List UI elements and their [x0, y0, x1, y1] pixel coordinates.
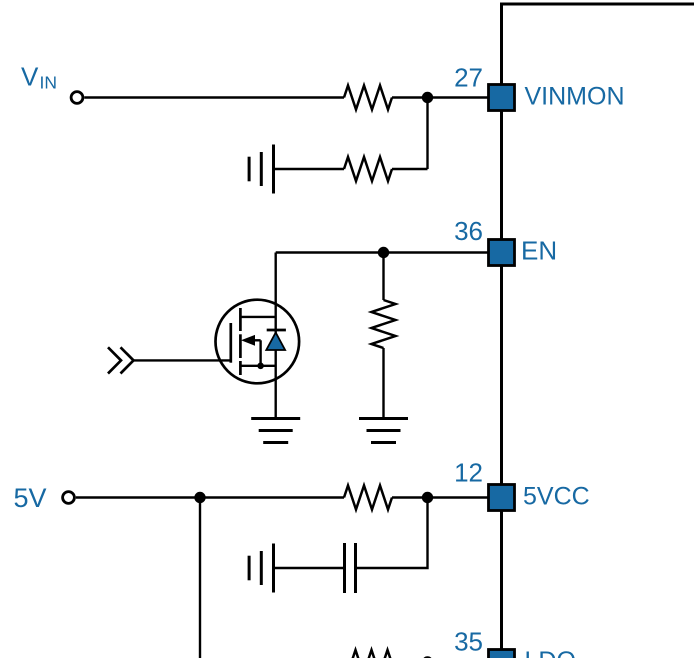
node junction bottom row	[422, 656, 433, 658]
node junction on 5V line (left)	[194, 492, 205, 503]
svg-text:EN: EN	[521, 236, 557, 266]
wire node down to lower resistor	[426, 98, 428, 170]
wire resistor to ground (row 2)	[274, 168, 345, 170]
wire node down to bottom	[199, 498, 201, 658]
wire VIN to resistor	[84, 96, 344, 98]
terminal 5V (open circle)	[63, 492, 75, 504]
ground (below EN pulldown)	[359, 419, 408, 443]
ground (row 2, rotated left)	[249, 145, 273, 194]
pin 27 square	[489, 85, 515, 111]
Q1 body circle	[215, 300, 299, 384]
svg-text:36: 36	[454, 216, 483, 246]
resistor (bottom row, partial)	[352, 650, 400, 658]
wire resistor to pin 5VCC	[392, 496, 489, 498]
svg-text:5V: 5V	[14, 483, 47, 513]
resistor (VIN line)	[344, 86, 392, 110]
capacitor (5VCC bypass)	[345, 543, 356, 593]
terminal VIN (open circle)	[71, 92, 83, 104]
Q1 gate bar	[229, 323, 232, 363]
svg-text:LDO: LDO	[525, 647, 576, 658]
svg-text:VINMON: VINMON	[525, 82, 625, 110]
svg-text:V: V	[21, 62, 39, 92]
svg-text:5VCC: 5VCC	[523, 482, 590, 510]
svg-text:IN: IN	[40, 73, 58, 93]
wire EN from drain corner to pin	[276, 251, 489, 253]
pin 35 square	[489, 650, 515, 658]
Q1 source lead	[240, 365, 275, 367]
wire gate	[134, 359, 231, 361]
body diode (blue)	[266, 333, 285, 351]
wire capacitor to ground	[274, 567, 345, 569]
wire lower resistor to corner	[392, 168, 428, 170]
wire 5V to resistor	[76, 496, 344, 498]
node junction on 5V line (right)	[422, 492, 433, 503]
ground (below Q1 source)	[251, 419, 300, 443]
body diode cathode bar	[267, 329, 286, 332]
ground (row 3, rotated left)	[249, 544, 273, 593]
resistor (to ground, row 2)	[344, 157, 392, 181]
off-page connector chevrons	[108, 347, 134, 373]
node junction on VIN line	[422, 92, 433, 103]
resistor (EN pulldown, vertical)	[372, 300, 396, 348]
Q1 source node dot	[257, 363, 264, 370]
svg-text:12: 12	[454, 457, 483, 487]
Q1 body arrow	[241, 335, 255, 346]
Q1 channel (dashed)	[239, 308, 242, 375]
wire drain up to EN / source down to ground	[275, 253, 277, 419]
wire resistor to pin VINMON	[392, 96, 489, 98]
label VIN	[21, 62, 57, 93]
svg-text:27: 27	[454, 62, 483, 92]
pin 12 square	[489, 485, 515, 511]
node junction on EN line	[378, 247, 389, 258]
wire node down to vertical resistor	[382, 253, 384, 301]
IC boundary	[502, 4, 694, 658]
resistor (5V line)	[344, 486, 392, 510]
wire node down to capacitor	[356, 498, 428, 569]
Q1 drain lead	[240, 316, 275, 318]
svg-text:35: 35	[454, 627, 483, 657]
wire resistor to ground	[382, 348, 384, 419]
transistor Q1 (N-MOSFET)	[215, 300, 299, 384]
pin 36 square	[489, 240, 515, 266]
